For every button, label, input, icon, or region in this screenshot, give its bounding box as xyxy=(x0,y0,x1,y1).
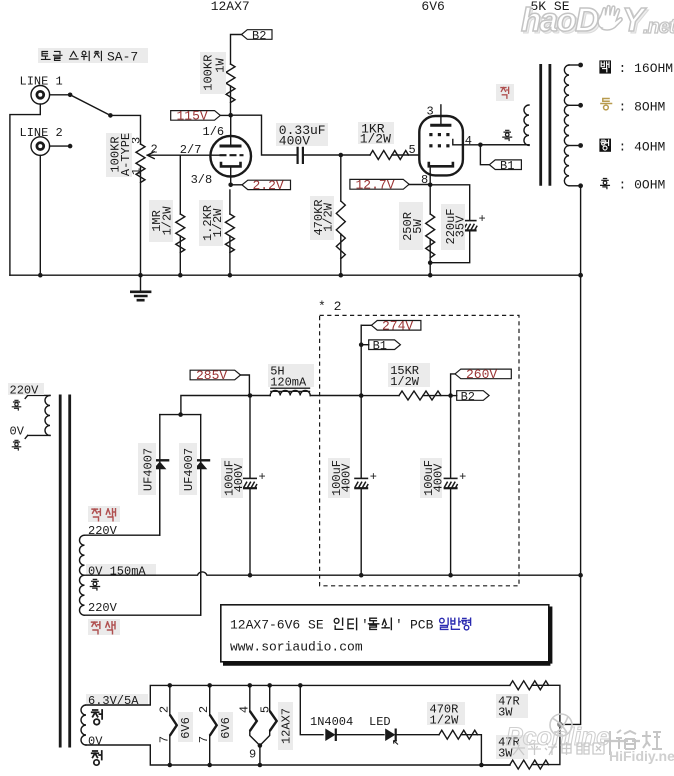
title box with shadow xyxy=(221,605,549,662)
wire HV center tap ground rail with hopover xyxy=(85,572,361,575)
capacitor 100uF 400V (B2 filter) xyxy=(450,396,452,478)
wire 4 ohm tap xyxy=(569,145,581,147)
PT mains primary winding 220V xyxy=(45,395,50,435)
label B1 callout (PSU) xyxy=(369,340,401,350)
svg-text:LED: LED xyxy=(369,715,391,729)
resistor 250R 5W (cathode bias) xyxy=(429,185,431,214)
svg-text:6V6: 6V6 xyxy=(421,0,444,14)
wire screen node to OPT primary bottom xyxy=(480,144,529,146)
label 274V callout xyxy=(371,321,421,331)
label 2.2V callout xyxy=(231,184,242,186)
wire 220uF bottom to 250R bottom xyxy=(430,231,470,263)
12AX7 grid dashes xyxy=(220,154,244,156)
capacitor 100uF 400V (first filter) xyxy=(249,396,251,479)
6V6 grid dot rows xyxy=(429,133,449,147)
PT HV secondary winding 220-0-220 xyxy=(80,535,85,615)
wire 285V node to choke xyxy=(250,395,270,397)
svg-text:4: 4 xyxy=(237,706,251,713)
node 12AX7 cathode xyxy=(228,183,233,188)
power transformer core xyxy=(60,395,69,748)
svg-text:1/2W: 1/2W xyxy=(390,375,420,389)
node choke output / B1 rail xyxy=(359,393,364,398)
watermark Pconline logo circle xyxy=(550,714,572,736)
label jeoksaek (red) HV bottom xyxy=(88,619,120,635)
label black (heuk) Korean at OPT primary xyxy=(503,130,512,140)
label 0V 150mA xyxy=(86,564,156,576)
svg-text:220V: 220V xyxy=(88,601,118,615)
svg-text:UF4007: UF4007 xyxy=(142,448,156,491)
svg-text:274V: 274V xyxy=(382,319,413,334)
wire 470R to bottom rail xyxy=(461,735,481,765)
svg-text:400V: 400V xyxy=(279,133,310,148)
wire heater bottom lead to rail xyxy=(86,745,510,765)
svg-text:B1: B1 xyxy=(373,339,387,353)
6V6 cathode xyxy=(429,162,453,167)
switch SA-7 blade xyxy=(70,95,110,116)
wire to B1 callout xyxy=(480,145,489,165)
right ground rail (0 ohm tap down to PSU) xyxy=(560,186,581,725)
label jeoksaek (red) HV top xyxy=(88,506,120,522)
svg-text:3W: 3W xyxy=(498,706,513,720)
watermark taipingyang chars xyxy=(512,742,604,755)
6V6 cathode lead (pin 8) xyxy=(429,166,431,185)
resistor 1KR 1/2W (grid stopper) xyxy=(341,154,370,156)
PT heater winding 6.3V/5A xyxy=(81,705,86,745)
svg-text:1/6: 1/6 xyxy=(203,125,225,139)
svg-text:UF4007: UF4007 xyxy=(182,448,196,491)
wire jack1 ground to bus xyxy=(10,104,40,275)
wire jack2 ground to bus xyxy=(39,155,41,275)
svg-text:2: 2 xyxy=(151,143,158,157)
svg-text:2.2V: 2.2V xyxy=(253,178,284,193)
ground symbol xyxy=(140,275,142,291)
value 100KR A-TYPE xyxy=(106,133,132,177)
svg-text:1/2W: 1/2W xyxy=(211,208,225,238)
svg-text:400V: 400V xyxy=(232,463,246,493)
resistor 470KR 1/2W (grid leak) xyxy=(340,155,342,201)
label 12.7V callout xyxy=(350,179,409,189)
OPT secondary winding xyxy=(564,65,569,186)
heater 6V6 #1 xyxy=(169,685,171,714)
svg-text:12AX7: 12AX7 xyxy=(280,708,294,744)
node switch input 1 xyxy=(68,93,73,98)
svg-text:12AX7-6V6 SE: 12AX7-6V6 SE xyxy=(230,618,324,633)
svg-text:0V: 0V xyxy=(10,424,25,438)
label B2 callout (PSU) xyxy=(457,391,489,401)
svg-text:+: + xyxy=(459,470,466,484)
svg-text:2: 2 xyxy=(157,706,171,713)
heater 6V6 #2 xyxy=(209,685,211,714)
svg-text:* 2: * 2 xyxy=(318,299,341,314)
svg-text:: 0OHM: : 0OHM xyxy=(619,178,666,193)
watermark haoDIY.net logo xyxy=(521,1,674,40)
wire up to 274V/B1 xyxy=(360,325,362,395)
resistor 470R 1/2W xyxy=(427,702,465,725)
diode UF4007 left xyxy=(159,415,161,470)
svg-text:115V: 115V xyxy=(177,109,208,124)
12AX7 plate bar xyxy=(220,145,242,148)
junction dots on ground bus xyxy=(38,273,43,278)
wire 0 ohm tap xyxy=(569,185,581,187)
svg-text:12AX7: 12AX7 xyxy=(211,0,250,14)
12AX7 plate lead xyxy=(230,115,232,144)
svg-text:1/2W: 1/2W xyxy=(321,202,335,232)
label 285V callout xyxy=(190,370,240,380)
wire jack1 stub xyxy=(50,94,71,96)
label heuk (black) mains 2 xyxy=(12,440,20,450)
svg-text:6.3V/5A: 6.3V/5A xyxy=(88,694,139,708)
svg-text:LINE 1: LINE 1 xyxy=(20,75,63,89)
watermark Pconline text xyxy=(506,723,610,751)
choke 5H 120mA xyxy=(270,388,310,391)
capacitor 100uF 400V (B1 filter) xyxy=(360,396,362,478)
junction dots top heater rail xyxy=(168,683,173,688)
triode 12AX7 envelope xyxy=(210,136,251,177)
wire heater top lead to rail xyxy=(86,685,510,705)
wire 285V callout to node xyxy=(241,375,250,396)
wire HV top tap to left diode xyxy=(85,470,160,535)
svg-text:': ' xyxy=(395,618,403,633)
svg-text:.net: .net xyxy=(643,16,674,38)
resistor 1MR 1/2W xyxy=(179,155,181,214)
svg-text:400V: 400V xyxy=(432,463,446,493)
potentiometer 100KR A-TYPE xyxy=(136,144,145,183)
OPT primary winding xyxy=(524,105,529,145)
label heuk (black) mains xyxy=(12,400,20,410)
svg-text:3: 3 xyxy=(427,105,434,119)
svg-text:3/8: 3/8 xyxy=(191,173,213,187)
svg-text:: 8OHM: : 8OHM xyxy=(619,99,666,114)
watermark luntan chars xyxy=(610,730,662,755)
svg-text:1W: 1W xyxy=(214,58,228,73)
node 250R/220uF junction xyxy=(428,260,433,265)
svg-text:120mA: 120mA xyxy=(270,375,307,389)
label white tap 16OHM xyxy=(599,60,611,73)
pentode 6V6 envelope xyxy=(419,116,463,175)
node switch input 2 (open) xyxy=(68,144,73,149)
wire diode cathodes junction to 285V rail xyxy=(160,414,201,416)
ground bus (top section) xyxy=(10,274,581,276)
label cheong (blue) bottom xyxy=(92,751,102,765)
junction dots bottom heater rail xyxy=(168,763,173,768)
svg-text:B2: B2 xyxy=(461,390,475,404)
svg-text:A-TYPE: A-TYPE xyxy=(119,133,133,176)
resistor 1.2KR 1/2W xyxy=(229,190,231,214)
node ground rail meets right rail xyxy=(578,573,583,578)
label 12AX7 rotated xyxy=(278,702,293,750)
node B2 rail xyxy=(448,393,453,398)
6V6 plate bar xyxy=(430,124,451,127)
label heuk (black) HV center xyxy=(90,579,99,590)
12AX7 cathode xyxy=(221,162,241,167)
label 115V callout xyxy=(171,111,221,121)
svg-text:HiFidiy.net: HiFidiy.net xyxy=(609,748,674,764)
svg-text:2: 2 xyxy=(197,706,211,713)
label 6.3V/5A xyxy=(86,694,148,706)
node switch common xyxy=(108,113,113,118)
label toggle switch SA-7 (Korean) xyxy=(38,48,148,63)
resistor 47R 3W (top) xyxy=(496,694,528,718)
wire mains lead bottom 0V xyxy=(25,435,50,438)
label 220V (mains) xyxy=(8,383,44,395)
svg-text:: 4OHM: : 4OHM xyxy=(619,140,666,155)
svg-text:Pconline: Pconline xyxy=(506,723,610,751)
svg-text:0V: 0V xyxy=(88,735,103,749)
pot wiper arrow + wire to grid xyxy=(147,154,219,156)
label 6V6 rotated xyxy=(178,712,193,742)
capacitor 220uF 35V (cathode bypass) xyxy=(463,220,477,222)
wire jack2 stub xyxy=(50,145,71,147)
diode UF4007 right xyxy=(200,415,202,470)
svg-text:7: 7 xyxy=(157,736,171,743)
node 6V6 cathode xyxy=(428,183,433,188)
capacitor 0.33uF 400V xyxy=(298,147,303,164)
resistor 100KR 1W (plate load) xyxy=(226,64,235,103)
wire mains lead top xyxy=(25,395,50,398)
svg-text:0V 150mA: 0V 150mA xyxy=(88,564,146,578)
svg-text:35V: 35V xyxy=(453,215,467,237)
OPT 5K SE core xyxy=(541,64,550,186)
node screen/B1 xyxy=(478,143,483,148)
wire switch to volume pot xyxy=(110,115,140,144)
label red (jeok) Korean xyxy=(496,84,514,101)
node 285V xyxy=(248,393,253,398)
wire choke to filter node xyxy=(310,395,361,397)
12AX7 cathode lead xyxy=(230,168,232,185)
wire HV bottom tap to right diode xyxy=(85,470,201,615)
wire B2 to 100KR xyxy=(231,35,242,65)
svg-text:6V6: 6V6 xyxy=(219,717,233,739)
label yellow tap 4OHM xyxy=(599,139,611,152)
wire cathode to 220uF xyxy=(430,185,470,220)
svg-text:LINE 2: LINE 2 xyxy=(20,126,63,140)
svg-text:B1: B1 xyxy=(500,159,514,173)
node first filter cap ground xyxy=(248,573,253,578)
label B2 callout (top) xyxy=(242,30,273,40)
wire plate node to coupling cap xyxy=(231,115,297,155)
svg-text:+: + xyxy=(479,212,486,226)
svg-text:260V: 260V xyxy=(466,367,497,382)
heater 12AX7 (pins 4,5,9) xyxy=(249,685,251,711)
svg-text:220V: 220V xyxy=(10,384,40,398)
wire cap to grid node xyxy=(304,154,341,156)
svg-text:1/2W: 1/2W xyxy=(161,206,175,236)
svg-text:4: 4 xyxy=(465,134,472,148)
svg-text:+: + xyxy=(370,470,377,484)
svg-text:5: 5 xyxy=(409,143,416,157)
svg-text:1/2W: 1/2W xyxy=(360,132,391,147)
node 6V6 grid feed xyxy=(339,153,344,158)
resistor 15KR 1/2W (dropper) xyxy=(361,395,399,397)
svg-text:285V: 285V xyxy=(196,368,227,383)
wire junction to ground bus xyxy=(429,263,431,276)
node 12AX7 plate xyxy=(228,113,233,118)
node B1 takeoff xyxy=(359,342,364,347)
label 260V callout xyxy=(455,369,511,379)
svg-text:5: 5 xyxy=(259,706,273,713)
label cheong (blue) top xyxy=(92,710,102,725)
svg-text:www.soriaudio.com: www.soriaudio.com xyxy=(230,640,363,655)
svg-text:9: 9 xyxy=(249,748,256,762)
svg-text:5W: 5W xyxy=(411,219,425,234)
svg-text:haoD: haoD xyxy=(521,1,598,38)
svg-text:1N4004: 1N4004 xyxy=(310,715,353,729)
svg-text:PCB: PCB xyxy=(410,618,434,633)
label 6V6 rotated xyxy=(218,712,233,742)
svg-text:: 16OHM: : 16OHM xyxy=(619,61,674,76)
svg-text:1/2W: 1/2W xyxy=(430,714,460,728)
node hum balance junction xyxy=(557,722,563,728)
label black tap 0OHM xyxy=(601,179,610,189)
svg-text:2/7: 2/7 xyxy=(180,143,202,157)
svg-text:SA-7: SA-7 xyxy=(107,50,138,65)
svg-text:B2: B2 xyxy=(252,29,266,43)
svg-text:12.7V: 12.7V xyxy=(356,178,395,193)
6V6 screen lead (pin 4) xyxy=(453,140,481,145)
wire 8 ohm tap xyxy=(569,104,581,106)
resistor 47R 3W (bottom) xyxy=(496,735,528,759)
wire 16 ohm tap xyxy=(569,64,581,66)
wire pot bottom to ground bus xyxy=(140,166,142,275)
wire LED branch from top rail xyxy=(300,685,323,734)
svg-text:7: 7 xyxy=(197,736,211,743)
label orange tap 8OHM xyxy=(601,99,612,110)
wire primary bottom lead xyxy=(480,144,529,146)
label B1 callout xyxy=(489,160,521,170)
svg-text:+: + xyxy=(259,470,266,484)
svg-text:': ' xyxy=(361,618,369,633)
node pin 9 xyxy=(258,743,263,748)
svg-text:400V: 400V xyxy=(340,463,354,493)
6V6 plate lead (pin 3) xyxy=(440,105,442,124)
svg-text:6V6: 6V6 xyxy=(179,717,193,739)
